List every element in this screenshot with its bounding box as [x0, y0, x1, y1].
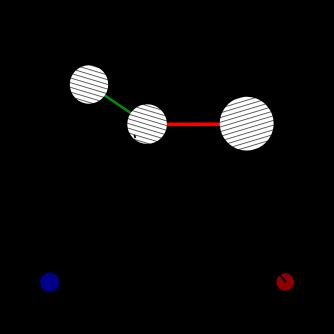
- wire black edge stub at N2 SW boundary: [134, 135, 135, 138]
- wire black edge N2-N5 (visible as slash over N5): [147, 124, 286, 282]
- node N1 (hatched circle, top left): [70, 65, 108, 103]
- node N3 (large hatched circle, right): [220, 97, 274, 151]
- node N5 (dark red dot, bottom right): [276, 273, 294, 291]
- node N4 (blue dot, bottom left): [40, 273, 59, 292]
- wire red edge N2-N3: [147, 122, 247, 126]
- wire green edge N1-N2: [89, 85, 147, 124]
- node N2 (hatched circle, middle): [127, 104, 167, 144]
